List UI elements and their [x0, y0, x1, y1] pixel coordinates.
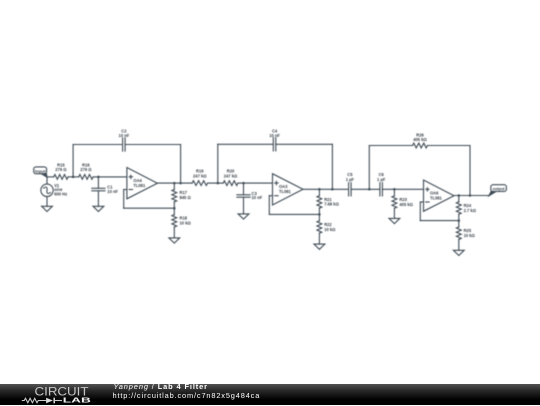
byline Yanpeng / Lab 4 Filter	[114, 383, 208, 390]
resistor R18	[172, 215, 177, 227]
wire OA3 feedback to R21/R22 node	[269, 213, 319, 215]
svg-text:TL081: TL081	[279, 189, 292, 194]
svg-text:TL081: TL081	[430, 195, 443, 200]
wire feedback rail to C2	[73, 144, 121, 146]
wire R15 to node A	[68, 176, 73, 178]
resistor R20	[223, 181, 238, 186]
junction R17/R18/feedback	[173, 207, 176, 210]
wire C5 to C6	[351, 188, 380, 190]
node A junction R15/R16/feedback	[72, 176, 75, 179]
wire node to R22	[318, 214, 320, 220]
resistor R23	[392, 196, 397, 208]
wire R25 to ground	[458, 239, 460, 250]
resistor R19	[192, 181, 208, 186]
svg-text:1 µF: 1 µF	[346, 177, 355, 182]
junction OA6 output / stage3 feedback	[469, 194, 472, 197]
ground C1	[93, 206, 104, 211]
junction OA4 output / feedback	[179, 182, 182, 185]
svg-text:279 Ω: 279 Ω	[80, 167, 92, 172]
wire R20 to op-amp OA3 + input	[238, 182, 273, 184]
footer bar	[0, 384, 540, 405]
wire input node to V1	[46, 177, 48, 184]
node output flag	[491, 185, 507, 192]
wire OA6 feedback left down	[419, 202, 421, 221]
wire C4 to right corner	[276, 143, 333, 145]
ground R23	[389, 218, 400, 223]
wire R17 to node	[173, 202, 175, 208]
svg-text:7.68 kΩ: 7.68 kΩ	[324, 202, 339, 207]
wire C2 to right corner	[125, 144, 181, 146]
capacitor C5	[348, 183, 350, 196]
CircuitLab logo resistor zigzag	[22, 398, 46, 402]
wire C3 to ground	[243, 197, 245, 214]
op-amp OA4 TL081	[127, 168, 157, 199]
capacitor C4	[272, 138, 274, 151]
ground R18	[169, 238, 180, 243]
wire R23 to ground	[393, 208, 395, 218]
svg-text:Input: Input	[35, 169, 46, 174]
op-amp OA3 TL081	[273, 174, 304, 205]
wire to R17	[173, 183, 175, 189]
wire R19 to R20	[208, 182, 224, 184]
wire feedback down to OA6 output	[469, 146, 471, 196]
capacitor C2	[122, 138, 124, 151]
wire feedback rail to C4	[218, 143, 273, 145]
svg-text:247 kΩ: 247 kΩ	[193, 173, 207, 178]
wire node to C1	[97, 177, 99, 188]
svg-text:405 kΩ: 405 kΩ	[413, 137, 427, 142]
output flag pointer	[489, 191, 497, 196]
resistor R26	[413, 143, 428, 148]
ground V1	[42, 206, 53, 211]
ground R22	[314, 244, 325, 249]
resistor R16	[79, 175, 93, 180]
svg-text:10 nF: 10 nF	[119, 133, 130, 138]
input flag pointer	[41, 174, 47, 178]
svg-text:405 kΩ: 405 kΩ	[399, 202, 413, 207]
resistor R22	[317, 221, 322, 233]
junction R23 top	[393, 188, 396, 191]
node input flag	[34, 167, 47, 174]
wire R18 to ground	[173, 227, 175, 238]
wire feedback down to OA4 output	[180, 145, 182, 184]
junction C3 top	[242, 182, 245, 185]
wire to R24	[458, 196, 460, 202]
svg-text:2.7 kΩ: 2.7 kΩ	[464, 208, 477, 213]
svg-text:10 nF: 10 nF	[107, 189, 118, 194]
wire OA6 output to output flag	[454, 195, 489, 197]
svg-text:600 Hz: 600 Hz	[54, 191, 67, 196]
wire node to C3	[243, 183, 245, 195]
junction OA6 output / R24	[458, 194, 461, 197]
junction R21/R22/feedback	[318, 213, 321, 216]
resistor R25	[456, 227, 461, 239]
wire OA6 - input stub	[420, 201, 423, 203]
svg-text:845 Ω: 845 Ω	[180, 195, 192, 200]
wire node A to R16	[73, 176, 79, 178]
capacitor C3	[237, 194, 250, 196]
wire up to stage3 feedback rail	[368, 146, 370, 190]
wire feedback rail to R26	[369, 145, 412, 147]
wire OA4 feedback to R17/R18 node	[124, 207, 175, 209]
wire R16 to op-amp OA4 + input	[93, 176, 127, 178]
svg-text:1 µF: 1 µF	[377, 177, 386, 182]
CircuitLab logo diode	[46, 398, 53, 404]
svg-text:10 kΩ: 10 kΩ	[464, 233, 476, 238]
wire OA3 feedback left down	[268, 196, 270, 215]
wire input node to R15	[47, 176, 54, 178]
wire node A up to feedback rail	[72, 145, 74, 177]
wire C6 to op-amp OA6 + input	[382, 188, 423, 190]
capacitor C6	[379, 183, 381, 196]
wire OA3 output to C5	[303, 188, 347, 190]
wire C1 to ground	[97, 191, 99, 206]
resistor R15	[54, 175, 68, 180]
wire R24 to node	[458, 214, 460, 220]
voltage source V1	[41, 184, 53, 196]
svg-text:10 kΩ: 10 kΩ	[180, 221, 192, 226]
junction OA3 output / R21	[318, 188, 321, 191]
ground R25	[453, 250, 464, 255]
wire V1 to ground	[46, 197, 48, 206]
svg-text:10 nF: 10 nF	[269, 133, 280, 138]
ground C3	[238, 214, 249, 219]
op-amp OA6 TL081	[424, 180, 455, 211]
wire R21 to node	[318, 208, 320, 214]
resistor R17	[172, 190, 177, 202]
wire feedback down to OA3 output	[331, 144, 333, 189]
url	[113, 392, 261, 399]
wire OA4 - input stub	[124, 189, 127, 191]
wire OA4 feedback left down	[123, 190, 125, 209]
resistor R21	[317, 196, 322, 208]
svg-text:10 nF: 10 nF	[252, 195, 263, 200]
junction OA3 output / stage2 feedback	[331, 188, 334, 191]
wire to R21	[318, 189, 320, 195]
wire R26 to right corner	[428, 145, 471, 147]
junction stage2 feedback left	[217, 182, 220, 185]
svg-text:output: output	[493, 186, 506, 191]
svg-text:TL081: TL081	[133, 183, 146, 188]
wire node to R18	[173, 208, 175, 214]
resistor R24	[456, 202, 461, 214]
capacitor C1	[92, 187, 105, 189]
svg-text:LAB: LAB	[63, 396, 92, 405]
wire node to R25	[458, 221, 460, 227]
junction stage3 feedback left	[368, 188, 371, 191]
wire OA6 feedback to R24/R25 node	[420, 220, 459, 222]
wire up to stage2 feedback rail	[217, 144, 219, 183]
junction R24/R25/feedback	[458, 219, 461, 222]
svg-text:279 Ω: 279 Ω	[55, 167, 67, 172]
svg-text:247 kΩ: 247 kΩ	[224, 173, 238, 178]
wire OA4 output to R19	[157, 182, 192, 184]
svg-text:10 kΩ: 10 kΩ	[324, 227, 336, 232]
wire OA3 - input stub	[269, 195, 272, 197]
junction OA4 output / R17	[173, 182, 176, 185]
node C1 top junction	[97, 176, 100, 179]
wire node to R23	[393, 189, 395, 196]
CircuitLab logo	[15, 382, 105, 406]
wire R22 to ground	[318, 233, 320, 244]
